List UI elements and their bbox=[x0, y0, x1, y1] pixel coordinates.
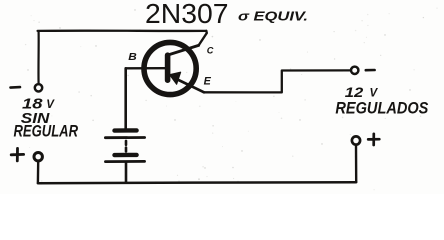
minus sign input bbox=[11, 86, 21, 89]
input terminal positive bbox=[34, 153, 42, 161]
transistor Q1 emitter lead bbox=[178, 80, 205, 93]
plus sign input bbox=[11, 148, 23, 161]
battery B1 plate long 2 bbox=[105, 160, 144, 163]
output terminal negative bbox=[351, 67, 358, 74]
wire corner down to collector bbox=[199, 31, 207, 46]
transistor Q1 emitter arrow (PNP) bbox=[170, 72, 181, 84]
svg-text:12: 12 bbox=[345, 85, 364, 100]
wire emitter to output bbox=[204, 70, 351, 92]
wire top horizontal bbox=[38, 29, 207, 32]
wire input positive down bbox=[37, 161, 40, 182]
input terminal negative bbox=[35, 84, 42, 91]
wire bottom bbox=[38, 182, 356, 183]
battery B1 dashes bbox=[125, 141, 128, 152]
output terminal positive bbox=[352, 136, 360, 144]
transistor Q1 base bar bbox=[165, 55, 171, 80]
battery B1 plate short 1 bbox=[115, 128, 137, 133]
wire battery down bbox=[125, 163, 128, 183]
battery B1 plate short 2 bbox=[115, 153, 137, 158]
battery B1 plate long 1 bbox=[105, 136, 144, 139]
svg-text:σ EQUIV.: σ EQUIV. bbox=[238, 10, 308, 24]
svg-text:V: V bbox=[370, 88, 379, 100]
transistor Q1 circle bbox=[144, 42, 196, 94]
transistor Q1 2N307 collector lead bbox=[168, 45, 199, 55]
svg-text:V: V bbox=[46, 99, 55, 111]
svg-text:2N307: 2N307 bbox=[145, 0, 229, 29]
svg-text:E: E bbox=[204, 76, 212, 88]
wire base horizontal bbox=[126, 67, 165, 70]
wire output positive down bbox=[355, 145, 358, 182]
svg-text:REGULAR: REGULAR bbox=[14, 123, 79, 141]
wire base down to battery bbox=[124, 68, 127, 128]
svg-text:REGULADOS: REGULADOS bbox=[335, 99, 428, 117]
wire left vertical up bbox=[37, 32, 39, 84]
svg-text:C: C bbox=[207, 46, 214, 56]
svg-text:B: B bbox=[128, 51, 137, 63]
minus sign output bbox=[366, 69, 375, 72]
plus sign output bbox=[368, 134, 379, 145]
